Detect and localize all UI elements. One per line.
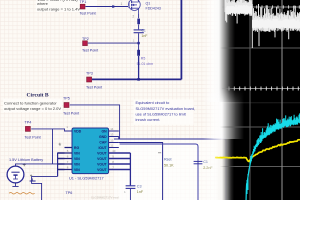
transistor Q1 (P-MOSFET) xyxy=(129,0,141,14)
blanket box A fill xyxy=(114,140,226,201)
error squiggle under battery xyxy=(9,192,35,194)
wire C1 to TP2 node xyxy=(138,33,140,52)
resistor R5 (small inline body) xyxy=(137,50,140,56)
wire TP4 to VDD xyxy=(31,129,72,131)
wire TP1 to Q1 gate xyxy=(85,6,128,8)
wire R5 down to TP3 rail xyxy=(138,56,140,79)
wire TP5 to ON pin xyxy=(70,105,120,139)
wire Q1 source down xyxy=(138,14,140,19)
VIN bus vertical xyxy=(57,153,59,177)
test point TP5 xyxy=(63,96,79,115)
annotation frame: function generator xyxy=(3,99,62,113)
small ground stub symbol xyxy=(30,178,36,181)
annotation text: function generator xyxy=(4,101,61,112)
annotation text: equivalent circuit note xyxy=(136,100,196,122)
right pin numbers xyxy=(110,127,116,170)
wire TP3 rail to right border xyxy=(92,78,181,80)
wire C3 to bottom edge xyxy=(129,189,131,201)
oscilloscope dark background fade (lower, over blanket box) xyxy=(203,139,300,200)
battery bottom stub xyxy=(12,183,18,187)
oscilloscope dark background fade (middle) xyxy=(203,88,300,139)
plus mark at battery positive xyxy=(23,163,26,166)
wire GND run to bottom right xyxy=(119,137,226,202)
capacitor C1 xyxy=(134,30,144,33)
IC left pin stubs xyxy=(65,148,73,170)
capacitor C3 xyxy=(126,186,136,189)
capacitor C2 xyxy=(194,161,203,163)
blanket box A border (top and right) xyxy=(114,139,226,201)
VIN bus stubs xyxy=(58,153,65,170)
wire CAP pin to Rset xyxy=(119,143,163,202)
junction on TP1 wire xyxy=(112,5,114,7)
test point TP4 xyxy=(25,120,41,139)
junction TP3 rail xyxy=(137,78,140,81)
wire right vertical riser xyxy=(180,0,182,79)
junction at TP2 node xyxy=(137,42,139,44)
tick on Rset wire xyxy=(158,152,161,154)
IC U1 SLG59M02717 xyxy=(72,128,109,174)
IC right pin stubs xyxy=(109,131,119,148)
test point TP1 xyxy=(80,0,96,15)
oscilloscope dark background fade (upper) xyxy=(203,0,300,102)
wire R4 to C1 xyxy=(138,24,140,29)
annotation frame: equivalent circuit note xyxy=(134,99,194,124)
VOUT bundle wires xyxy=(109,153,131,170)
resistor R4 (small inline body) xyxy=(137,19,140,25)
VOUT bundle vertical xyxy=(129,153,131,185)
annotation frame top-left xyxy=(36,0,97,12)
wire battery top to VIN bus xyxy=(16,164,58,166)
scope graticule: horizontal gridlines xyxy=(216,48,300,167)
left pin numbers xyxy=(59,143,69,169)
blanket box B fill xyxy=(120,145,198,201)
white noise trace core xyxy=(227,5,301,29)
schematic sheet grid background xyxy=(0,0,300,200)
cyan trace noise comb xyxy=(247,113,300,194)
white noise trace (channel 1) xyxy=(225,0,300,48)
annotation text top-left (first line cut off by image edge) xyxy=(37,0,80,11)
scope graticule: vertical gridlines xyxy=(218,0,250,200)
yellow trace (channel 2) xyxy=(215,140,300,162)
pin mark above RG xyxy=(59,143,62,146)
scope axis line with ticks (middle) xyxy=(222,88,300,90)
test point TP2 xyxy=(82,37,98,53)
blanket box B border (top and right) xyxy=(120,144,198,201)
wire TP2 to node xyxy=(88,42,139,44)
battery B1 xyxy=(7,166,24,183)
test point TP3 xyxy=(86,72,102,90)
cyan trace (channel 3) xyxy=(246,120,300,203)
wire TP4 branch down to battery rail xyxy=(52,129,54,164)
scope cursor vertical line xyxy=(281,0,283,200)
wire bus bottom to ground run xyxy=(32,176,58,201)
scope axis line with ticks (top) xyxy=(222,6,300,8)
plus mark near ground stub xyxy=(30,174,32,176)
